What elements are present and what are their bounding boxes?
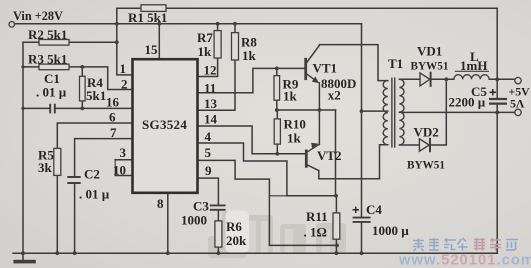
svg-text:15: 15 [145,42,159,57]
resistor R5 [54,148,61,175]
wire: R6 bottom lead [217,247,219,253]
wire: pin 6 to R5 top [57,123,132,148]
svg-text:16: 16 [106,95,120,110]
resistor R4 [80,76,86,101]
wire: emitter junction wire [277,109,335,111]
diode VD2 [419,139,429,151]
wire: pin 4 sense wire left part [269,195,287,197]
svg-text:C4: C4 [366,202,382,217]
diode VD1 [420,73,430,86]
svg-text:R3 5k1: R3 5k1 [28,52,67,67]
svg-text:6: 6 [109,110,116,125]
wire: T1 secondary top to VD1 [399,78,419,80]
svg-text:2: 2 [121,77,128,92]
svg-text:SG3524: SG3524 [142,117,187,132]
svg-text:7: 7 [110,125,117,140]
capacitor C5 [489,99,507,104]
wire: R5 bottom lead to ground rail [56,175,58,253]
terminal: output common [515,109,521,115]
svg-text:5k1: 5k1 [86,88,106,103]
wire: bottom ground rail [13,252,497,254]
wire: R10 top lead [276,110,278,119]
wire: sense riser down to R11 top node [335,110,337,196]
resistor R6 [215,221,222,247]
terminal: Vin input [9,22,15,28]
wire: R1 left loop and pin 1 column [117,8,141,75]
resistor R3 [39,64,69,70]
wire: pin 12 to R7 bottom [198,58,218,77]
svg-text:Vin +28V: Vin +28V [13,9,63,23]
wire: VT1 collector to T1 primary top [306,45,388,81]
wire: R9 bottom lead [276,100,278,110]
svg-text:VT2: VT2 [317,148,342,163]
wire: C5 bottom lead [496,104,498,113]
wire: pin 10 [115,175,132,177]
wire: VD1 to L input node [431,78,454,80]
inductor L coil [454,75,489,80]
wire: R10 bottom lead [276,144,278,154]
wire: R7 top lead [217,24,219,31]
svg-text:R2 5k1: R2 5k1 [28,27,67,42]
wire: C2 bottom lead to ground rail [74,183,76,253]
svg-text:R7: R7 [197,30,213,45]
IC U1 SG3524 [133,59,198,193]
transistor VT1 emitter arrow [312,77,319,84]
svg-text:1mH: 1mH [460,58,487,73]
gray watermark blob behind R6 [208,211,346,258]
terminal: +5V output [515,77,521,83]
transistor VT1 base bar [304,58,307,80]
wire: T1 secondary center tap to output common [399,111,514,113]
svg-text:4: 4 [205,129,212,144]
svg-text:www.520101.com: www.520101.com [398,253,531,268]
svg-text:. 01 µ: . 01 µ [36,85,67,100]
wire: R8 top lead [234,24,236,33]
svg-text:12: 12 [204,63,217,78]
svg-text:R11: R11 [306,209,328,224]
resistor R1 [141,5,166,12]
wire: T1 primary center tap [362,110,388,112]
wire: L output to +5V terminal [489,78,515,80]
svg-text:. 1Ω: . 1Ω [304,225,327,240]
inductor L value underline [455,70,489,72]
wire: top feedback rail with R1, down right side [166,8,497,79]
resistor R11 [333,213,340,239]
wire: C5 top lead [496,79,498,99]
wire: VD2 cathode riser up to L input [430,79,446,145]
svg-text:11: 11 [204,81,216,96]
wire: pin 11 up to VT1 base [198,68,304,92]
wire: pin3-pin10 tie [114,160,116,176]
wire: R11 top lead [335,196,337,213]
svg-text:1k: 1k [242,48,257,63]
svg-text:. 01 µ: . 01 µ [79,187,110,202]
svg-text:9: 9 [205,163,212,178]
svg-text:T1: T1 [388,56,403,71]
wire: pin 13 to R8 bottom [198,60,235,110]
wire: pin 14 down to VT2 base [198,126,305,154]
wire: VT2 collector to T1 primary bottom [308,145,388,179]
capacitor C1 [50,104,55,114]
wire: pin 8 to ground rail [167,193,169,253]
capacitor C4 [353,218,371,222]
svg-text:5Λ: 5Λ [510,97,525,111]
transistor VT2 emitter lead [308,144,320,152]
transistor VT2 base bar [305,150,308,168]
wire: C1 right lead to pin 16 [55,107,132,109]
wire: Vin riser down to T1 center tap and C4 [361,24,363,218]
C4 plus sign [353,207,359,213]
wire: T1 secondary bottom to VD2 [399,144,419,146]
svg-text:13: 13 [204,96,218,111]
svg-text:VD1: VD1 [417,44,442,59]
svg-text:R10: R10 [284,117,306,132]
svg-text:C2: C2 [84,167,100,182]
wire: pin 7 to C2 top [75,139,132,177]
svg-text:3: 3 [120,145,127,160]
svg-text:1: 1 [120,61,127,76]
wire: pin 9 to C3 top [198,178,218,205]
wire: R2 left lead [23,41,39,43]
svg-text:1k: 1k [198,44,213,59]
svg-text:14: 14 [204,112,218,127]
transistor VT1 emitter lead [306,74,318,82]
wire: R3 left lead [23,66,39,68]
svg-text:3k: 3k [38,160,53,175]
resistor R2 [39,40,69,46]
blue watermark: chinese site name glyph blocks [413,238,468,251]
svg-text:R6: R6 [226,219,242,234]
svg-text:2200 µ: 2200 µ [449,95,486,110]
svg-text:20k: 20k [226,233,247,248]
svg-text:10: 10 [113,163,126,178]
wire: pin 5 staircase to R11 bottom [198,160,338,245]
wire: Vin +28V top rail [15,23,362,25]
C5 plus sign [490,89,496,95]
transformer T1 primary winding [383,81,388,145]
svg-text:VT1: VT1 [313,61,338,76]
wire: R4 bottom lead [81,101,83,109]
wire: left ground column [22,42,24,253]
svg-text:VD2: VD2 [414,125,439,140]
wire: R11 bottom lead to rail [335,239,337,253]
transistor VT2 emitter arrow [311,143,318,149]
resistor R10 [274,119,280,144]
wire: C3 bottom to R6 top [217,210,219,221]
wire: R4 top lead [81,67,83,76]
wire: R9 top lead [276,68,278,75]
wire: R2 right lead to pin1 column [69,41,117,43]
capacitor C3 [210,205,226,209]
svg-text:x2: x2 [328,88,341,103]
svg-text:R1 5k1: R1 5k1 [128,10,167,25]
gray watermark inner highlights [247,221,330,253]
svg-text:1k: 1k [287,131,302,146]
wire: pin 4 staircase to current sense node [198,143,336,196]
svg-text:1000 µ: 1000 µ [372,223,409,238]
wire: pin 3 [115,159,132,161]
wire: output common down to ground rail [496,112,498,253]
svg-text:C3: C3 [193,199,209,214]
svg-text:BYW51: BYW51 [411,61,449,73]
wire: VT1 emitter down to VT2 emitter [318,83,320,145]
wire: R3 right lead to pin 2 [69,67,132,90]
svg-text:BYW51: BYW51 [407,160,445,172]
ground bar [13,260,35,264]
resistor R9 [274,76,280,101]
transformer T1 secondary winding [399,79,404,145]
transformer T1 core [392,78,395,148]
svg-text:1k: 1k [283,89,298,104]
svg-text:8: 8 [157,196,164,211]
wire: C1 left lead [23,107,50,109]
svg-text:1000: 1000 [181,213,207,228]
resistor R7 [214,31,221,58]
resistor R8 [232,33,239,60]
wire: pin 15 riser from Vin rail [158,24,160,59]
capacitor C2 [67,177,80,183]
svg-text:5: 5 [205,145,212,160]
wire: ground stub [22,253,24,259]
wire: C4 bottom lead to ground rail [361,222,363,253]
